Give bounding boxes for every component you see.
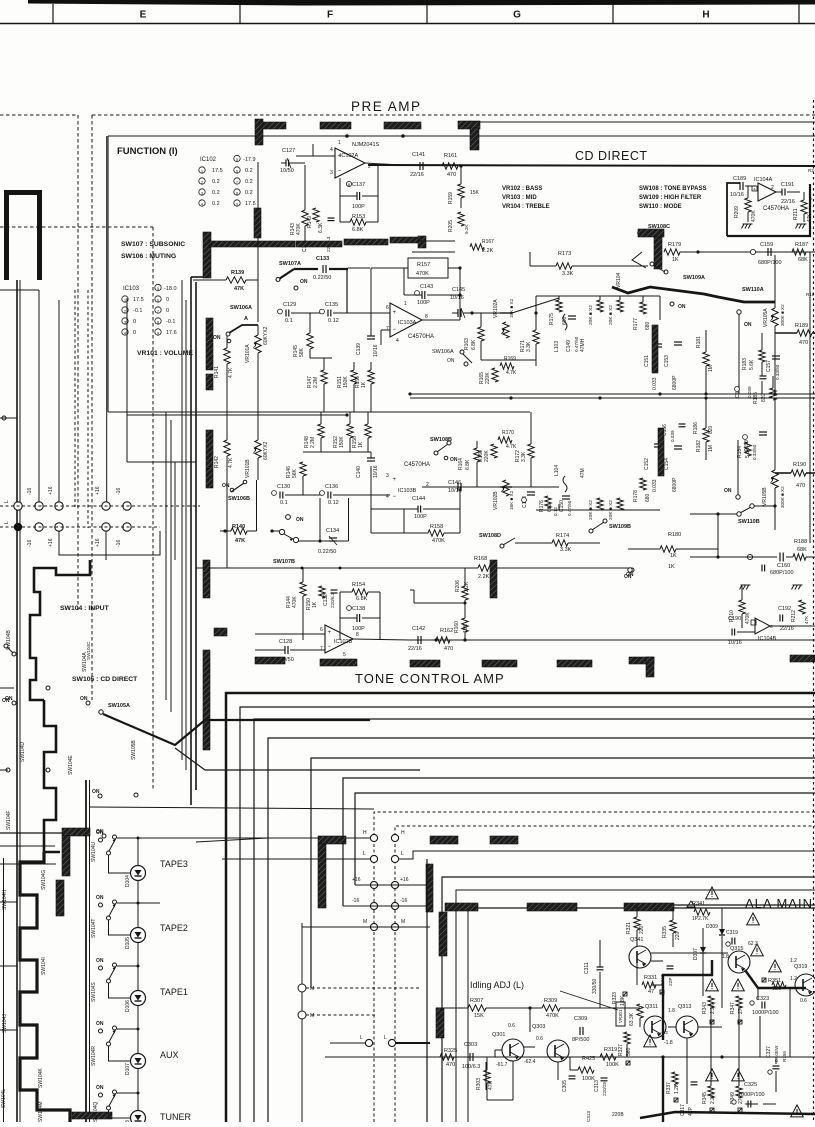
svg-text:47: 47 xyxy=(648,989,654,995)
wire: x530 to idling xyxy=(570,1069,578,1071)
svg-text:VR104: VR104 xyxy=(616,272,622,288)
svg-text:R181: R181 xyxy=(696,336,702,348)
svg-text:-16: -16 xyxy=(27,540,33,547)
svg-text:IC102B: IC102B xyxy=(334,639,353,645)
svg-text:-0.1: -0.1 xyxy=(166,319,175,325)
svg-text:22/16: 22/16 xyxy=(780,626,794,632)
svg-text:0.12: 0.12 xyxy=(328,500,339,506)
svg-text:SW104M: SW104M xyxy=(38,1101,44,1122)
svg-text:C317: C317 xyxy=(680,1104,686,1116)
wire: x106 down xyxy=(105,531,107,560)
svg-text:IC103: IC103 xyxy=(123,286,140,292)
svg-text:C145: C145 xyxy=(452,287,465,293)
svg-text:C142: C142 xyxy=(412,626,425,632)
shield bar y658-5 xyxy=(557,660,592,667)
node matrix row1 xyxy=(14,502,22,510)
svg-text:IC104A: IC104A xyxy=(754,177,773,183)
svg-text:470K: 470K xyxy=(432,538,445,544)
svg-text:C139: C139 xyxy=(356,343,362,355)
thick meander SW104 lower xyxy=(44,700,60,852)
svg-text:C141: C141 xyxy=(412,152,425,158)
svg-text:470: 470 xyxy=(444,646,453,652)
svg-text:0.2: 0.2 xyxy=(212,201,220,207)
svg-text:150K: 150K xyxy=(339,436,345,448)
label ON vr105a xyxy=(737,310,741,314)
svg-text:R141: R141 xyxy=(214,366,220,378)
shield bar x208 c xyxy=(206,430,213,488)
svg-text:C309: C309 xyxy=(574,1016,587,1022)
svg-text:R173: R173 xyxy=(558,251,571,257)
nested box line 6 xyxy=(343,778,815,906)
svg-text:0.33/50: 0.33/50 xyxy=(775,364,780,380)
nested box line 1 xyxy=(226,693,815,1122)
svg-text:C160: C160 xyxy=(777,563,790,569)
nested box line 2 xyxy=(240,707,815,1122)
svg-text:H: H xyxy=(363,830,367,836)
svg-text:1.8: 1.8 xyxy=(722,954,729,960)
svg-text:R190: R190 xyxy=(793,462,806,468)
wire: tone left y864 xyxy=(0,863,56,865)
node circles H row xyxy=(370,834,377,841)
svg-text:2.2K: 2.2K xyxy=(710,1093,716,1104)
wire: x775 column xyxy=(774,255,776,300)
svg-text:L: L xyxy=(360,1035,363,1041)
switch TAPE2 xyxy=(113,900,117,904)
wire: C133 down x348 xyxy=(346,269,348,313)
svg-text:47M: 47M xyxy=(580,468,586,478)
junction dots y136 xyxy=(345,134,349,138)
wire: ch2 filter row xyxy=(512,486,559,488)
warning triangle wt10 xyxy=(791,1105,804,1117)
svg-text:0.033: 0.033 xyxy=(652,479,658,492)
svg-text:SW109A: SW109A xyxy=(683,275,705,281)
wire: bottom q301 links xyxy=(512,1061,514,1100)
svg-text:680: 680 xyxy=(645,493,651,502)
svg-text:-62.4: -62.4 xyxy=(524,1059,536,1065)
shield bar top-3 xyxy=(320,122,351,129)
svg-text:ON: ON xyxy=(296,517,304,523)
svg-text:VR102 : BASS: VR102 : BASS xyxy=(502,186,542,192)
shield bar mid tone2 xyxy=(430,836,458,844)
svg-text:C159: C159 xyxy=(760,242,773,248)
diode D107 xyxy=(131,1054,146,1069)
svg-text:C149: C149 xyxy=(566,340,572,352)
node circles L row xyxy=(370,855,377,862)
svg-text:-1.8: -1.8 xyxy=(664,1040,673,1046)
svg-text:L103: L103 xyxy=(554,341,560,352)
svg-text:6.8K: 6.8K xyxy=(356,596,368,602)
thick box IC104A block xyxy=(727,183,740,236)
wire: R180 jog xyxy=(676,549,718,557)
wire: diode column D108 xyxy=(137,1093,139,1111)
wire: L row step right xyxy=(399,851,815,859)
thick bracket top-left xyxy=(4,190,42,280)
svg-text:820: 820 xyxy=(708,425,714,434)
svg-text:Q319: Q319 xyxy=(794,964,807,970)
svg-text:R345: R345 xyxy=(702,1092,708,1104)
wire: TAPE3 row xyxy=(117,837,138,839)
svg-text:6800P: 6800P xyxy=(672,375,678,390)
svg-text:0.12: 0.12 xyxy=(553,507,558,516)
wire: ch2 feedback xyxy=(371,508,418,510)
wire: TAPE2 row right xyxy=(138,902,160,904)
svg-text:16K ■ X2: 16K ■ X2 xyxy=(509,298,514,318)
svg-text:C152: C152 xyxy=(644,458,650,470)
node M1 xyxy=(298,984,306,992)
shield bar left tone xyxy=(62,828,90,836)
svg-text:0: 0 xyxy=(166,297,169,303)
svg-text:R331: R331 xyxy=(644,975,657,981)
shield bar y658-7 xyxy=(790,655,815,662)
svg-text:C138: C138 xyxy=(352,606,365,612)
svg-text:100P: 100P xyxy=(414,514,427,520)
svg-text:R182: R182 xyxy=(696,440,702,452)
wire: IC103A out xyxy=(422,319,460,321)
svg-text:1K: 1K xyxy=(670,553,677,559)
nested box line 7 xyxy=(355,793,815,885)
warning triangle wt3 xyxy=(751,944,764,956)
svg-text:22/16: 22/16 xyxy=(410,172,424,178)
svg-text:M: M xyxy=(310,986,314,992)
svg-text:C189: C189 xyxy=(733,176,746,182)
svg-text:ON: ON xyxy=(624,574,632,580)
diode D108 xyxy=(131,1111,146,1126)
svg-text:A: A xyxy=(244,316,248,322)
svg-text:2.2M: 2.2M xyxy=(313,377,319,388)
svg-text:ON: ON xyxy=(96,958,104,964)
svg-text:5: 5 xyxy=(343,652,346,658)
svg-text:470K: 470K xyxy=(296,223,302,235)
svg-text:R179: R179 xyxy=(668,242,681,248)
svg-text:M: M xyxy=(401,919,405,925)
svg-text:ON: ON xyxy=(744,322,752,328)
wire: TAPE3 switch drop xyxy=(109,855,131,873)
svg-text:56K: 56K xyxy=(299,347,305,357)
wire: y415 link xyxy=(127,414,347,416)
svg-text:CD DIRECT: CD DIRECT xyxy=(575,149,648,163)
thick meander SW104 bottom xyxy=(20,852,70,1122)
svg-text:R169: R169 xyxy=(504,356,516,362)
svg-text:60KYX2: 60KYX2 xyxy=(263,326,269,345)
svg-text:47K: 47K xyxy=(488,1080,494,1090)
svg-text:TUNER: TUNER xyxy=(160,1112,191,1122)
svg-text:4.7K: 4.7K xyxy=(228,367,234,378)
thick trace q315 emitter xyxy=(745,970,806,988)
svg-text:680P/100: 680P/100 xyxy=(758,260,782,266)
svg-text:TAPE1: TAPE1 xyxy=(160,987,188,997)
svg-text:C154: C154 xyxy=(664,458,670,470)
svg-text:R211: R211 xyxy=(793,208,799,220)
nested dashed line 9 xyxy=(395,826,815,1122)
svg-text:1M: 1M xyxy=(708,365,714,372)
svg-text:C313: C313 xyxy=(586,1111,591,1122)
svg-text:0.2: 0.2 xyxy=(245,179,253,185)
border: header tick E|F xyxy=(52,4,54,24)
svg-text:R206: R206 xyxy=(455,580,461,592)
wire: q341 to q315 xyxy=(651,952,728,954)
svg-text:VR101 : VOLUME: VR101 : VOLUME xyxy=(137,350,193,357)
svg-text:3.3K: 3.3K xyxy=(526,341,532,352)
svg-text:FUNCTION (I): FUNCTION (I) xyxy=(117,146,178,157)
svg-text:VR102A: VR102A xyxy=(493,299,499,318)
svg-text:R303: R303 xyxy=(476,1078,482,1090)
svg-text:C4570HA: C4570HA xyxy=(408,334,434,340)
wire: L bottom thick right xyxy=(396,1042,430,1044)
wire: pair horizontal stub xyxy=(191,276,204,278)
dashed border: left block top xyxy=(0,114,78,116)
svg-text:SW104F: SW104F xyxy=(6,811,12,830)
svg-text:SW106 : MUTING: SW106 : MUTING xyxy=(121,253,176,260)
svg-text:2.2K: 2.2K xyxy=(482,248,494,254)
svg-text:L: L xyxy=(4,521,10,524)
svg-text:-17.9: -17.9 xyxy=(243,157,256,163)
svg-text:SW104R: SW104R xyxy=(91,1046,97,1066)
shield bar x493 xyxy=(490,560,497,598)
wire: left edge stubs lower xyxy=(0,901,17,903)
svg-text:0: 0 xyxy=(133,330,136,336)
svg-text:3: 3 xyxy=(386,473,389,479)
svg-text:SW104U: SW104U xyxy=(91,842,97,862)
svg-text:47K: 47K xyxy=(235,538,245,544)
shield bar ala-5 vertical xyxy=(436,1008,444,1038)
svg-text:15K: 15K xyxy=(470,190,480,196)
svg-text:10/16: 10/16 xyxy=(730,192,744,198)
svg-text:68K: 68K xyxy=(798,257,808,263)
warning triangle wt1 xyxy=(706,887,719,899)
svg-text:16K ■ X2: 16K ■ X2 xyxy=(509,490,514,510)
wire: y268 row mid xyxy=(348,267,370,269)
svg-text:R153: R153 xyxy=(352,214,365,220)
wire: y462 stub xyxy=(175,461,196,463)
svg-text:C191: C191 xyxy=(781,182,794,188)
svg-text:SW109B: SW109B xyxy=(609,524,631,530)
svg-text:0.47/50: 0.47/50 xyxy=(567,500,572,516)
dashed border: left block right side xyxy=(77,115,79,610)
svg-text:ON: ON xyxy=(96,830,104,836)
svg-text:10/16: 10/16 xyxy=(450,295,464,301)
svg-text:680P/100: 680P/100 xyxy=(770,570,794,576)
switch SW106A xyxy=(229,325,258,333)
svg-text:470K: 470K xyxy=(751,210,757,222)
svg-text:R161: R161 xyxy=(444,153,457,159)
svg-text:VR301: VR301 xyxy=(618,1009,623,1023)
svg-text:47K: 47K xyxy=(234,286,244,292)
svg-text:C143: C143 xyxy=(420,284,433,290)
svg-text:H: H xyxy=(401,830,405,836)
wire: TAPE1 row xyxy=(117,965,138,967)
border: header band bottom line xyxy=(0,23,815,25)
wire: bus y244 to C129 column xyxy=(296,162,305,164)
wire: mid verticals x166-x196 xyxy=(165,412,167,700)
potentiometer VR301 xyxy=(616,1002,625,1026)
wire: ala double line y905 xyxy=(640,904,815,906)
svg-text:300K ■ X2: 300K ■ X2 xyxy=(780,486,785,508)
svg-text:1: 1 xyxy=(338,140,341,146)
svg-text:C305: C305 xyxy=(562,1080,568,1092)
svg-text:470K: 470K xyxy=(745,612,751,624)
svg-text:3.3K: 3.3K xyxy=(521,451,527,462)
wire: IC102B out xyxy=(353,639,410,640)
node M2 xyxy=(298,1011,306,1019)
svg-text:ON: ON xyxy=(222,483,230,489)
svg-text:470: 470 xyxy=(799,340,808,346)
svg-text:R18: R18 xyxy=(806,292,815,297)
shield blob bottom edge xyxy=(72,1112,112,1119)
wire: M column xyxy=(301,923,303,1122)
svg-text:SW104 : INPUT: SW104 : INPUT xyxy=(60,605,110,612)
svg-text:R205: R205 xyxy=(448,220,454,232)
svg-text:7: 7 xyxy=(386,326,389,332)
svg-text:SW104J: SW104J xyxy=(2,1014,8,1033)
svg-text:R180: R180 xyxy=(668,532,681,538)
svg-text:R142: R142 xyxy=(214,456,220,468)
svg-text:NJM2041S: NJM2041S xyxy=(352,142,380,148)
wire: left bus x39 xyxy=(38,290,40,507)
svg-text:R160: R160 xyxy=(454,621,460,633)
wire: tone left y833 xyxy=(0,832,62,834)
svg-text:0.039: 0.039 xyxy=(670,430,675,442)
svg-text:C325: C325 xyxy=(744,1082,757,1088)
svg-text:R347: R347 xyxy=(730,1002,736,1014)
ground (R211) xyxy=(796,224,799,229)
svg-text:R175: R175 xyxy=(549,313,555,325)
svg-text:4: 4 xyxy=(330,147,333,153)
svg-text:SW104S: SW104S xyxy=(91,982,97,1002)
svg-text:4.7K: 4.7K xyxy=(506,370,517,376)
wire: q301 links xyxy=(495,1049,502,1051)
svg-text:PRE AMP: PRE AMP xyxy=(351,99,422,114)
svg-text:20K ■ X2: 20K ■ X2 xyxy=(588,305,594,325)
svg-text:ON: ON xyxy=(2,698,10,704)
thick trace SW108C down xyxy=(632,252,646,268)
svg-text:220: 220 xyxy=(639,925,645,934)
svg-text:47K: 47K xyxy=(804,615,809,624)
wire: y640 long xyxy=(410,639,815,641)
svg-text:C327: C327 xyxy=(766,1046,772,1058)
svg-text:0: 0 xyxy=(133,319,136,325)
svg-text:ON: ON xyxy=(300,279,308,285)
wire: sw107b row xyxy=(298,540,329,542)
svg-text:470K: 470K xyxy=(416,271,429,277)
svg-text:IC104B: IC104B xyxy=(758,636,777,642)
svg-text:R355: R355 xyxy=(782,1051,787,1062)
svg-text:17.5: 17.5 xyxy=(212,168,223,174)
svg-text:R188: R188 xyxy=(794,539,807,545)
nested dashed line 8 xyxy=(374,812,815,1122)
op-amp U IC102B xyxy=(325,625,353,653)
shield bar y658-6 xyxy=(629,657,654,664)
wire: idling pointer xyxy=(560,991,618,1010)
wire: ch1 mid row xyxy=(481,359,536,361)
svg-text:100K: 100K xyxy=(606,1062,619,1068)
svg-text:C192: C192 xyxy=(778,606,791,612)
wire: filter top row xyxy=(512,298,559,313)
wire: divider y394 xyxy=(410,393,815,395)
svg-text:1K: 1K xyxy=(312,601,318,608)
svg-text:D106: D106 xyxy=(125,1000,131,1012)
op-amp U IC104B xyxy=(755,618,770,634)
wire: y568 long xyxy=(196,567,478,569)
svg-text:-16: -16 xyxy=(400,898,407,904)
resistor R351 xyxy=(762,978,766,982)
svg-text:220K: 220K xyxy=(485,372,491,384)
svg-text:-16: -16 xyxy=(27,488,33,495)
svg-text:SW110B: SW110B xyxy=(738,519,760,525)
svg-text:470K: 470K xyxy=(546,1013,559,1019)
svg-text:L: L xyxy=(363,851,366,857)
shield bar x205 low xyxy=(203,560,210,598)
node circles -16 row xyxy=(370,902,377,909)
shield bar top-4 xyxy=(384,122,421,129)
wire: row2 link down xyxy=(59,531,160,555)
wire: ch1 right verticals xyxy=(659,296,661,320)
wire: q313 emitter xyxy=(686,1038,688,1070)
dashed wire row1 xyxy=(0,505,200,507)
nested box line 4 xyxy=(268,738,815,1122)
svg-text:ON: ON xyxy=(96,1021,104,1027)
wire: ala box left v2 xyxy=(442,877,815,1122)
svg-text:0.22/50: 0.22/50 xyxy=(318,549,336,555)
thick trace x663 down xyxy=(662,1057,664,1122)
svg-text:+16: +16 xyxy=(48,486,54,495)
svg-text:17.5: 17.5 xyxy=(133,297,144,303)
svg-text:1M: 1M xyxy=(708,445,714,452)
svg-text:C134: C134 xyxy=(326,528,339,534)
svg-text:C153: C153 xyxy=(664,355,670,367)
svg-text:4.7K: 4.7K xyxy=(506,444,517,450)
svg-text:D309: D309 xyxy=(706,924,718,930)
svg-text:R186: R186 xyxy=(693,422,699,434)
diode D105 xyxy=(131,928,146,943)
op-amp U IC102A xyxy=(335,148,365,178)
svg-text:1K: 1K xyxy=(672,257,679,263)
wire: TAPE3 row to H xyxy=(138,837,268,839)
shield bar SW108C xyxy=(638,229,664,237)
wire: TAPE2 row xyxy=(117,902,138,904)
diode D106 xyxy=(131,991,146,1006)
svg-text:C127: C127 xyxy=(282,148,295,154)
warning triangle wt2 xyxy=(747,913,760,925)
svg-text:220: 220 xyxy=(675,931,681,940)
svg-text:+16: +16 xyxy=(48,538,54,547)
svg-text:VR101B: VR101B xyxy=(245,459,251,478)
svg-text:SW104H: SW104H xyxy=(2,890,8,910)
border: top sheet line xyxy=(28,0,815,6)
svg-text:3.3K: 3.3K xyxy=(560,547,572,553)
svg-text:0.2: 0.2 xyxy=(245,190,253,196)
warning triangle wt6 xyxy=(706,979,719,991)
svg-text:0.039: 0.039 xyxy=(747,386,752,398)
wire: matrix row links xyxy=(268,837,371,839)
svg-text:150K: 150K xyxy=(343,376,349,388)
wire: x775 column ch2 xyxy=(774,398,776,470)
svg-text:D107: D107 xyxy=(125,1063,131,1075)
switch TAPE3 xyxy=(113,835,117,839)
svg-text:1P2.7K: 1P2.7K xyxy=(692,916,709,922)
wire: R143 drop xyxy=(304,165,306,210)
svg-text:F: F xyxy=(327,10,333,21)
svg-text:R158: R158 xyxy=(430,524,443,530)
svg-text:17.5: 17.5 xyxy=(245,201,256,207)
svg-text:ON: ON xyxy=(213,335,221,341)
wire: left edge stubs xyxy=(0,687,14,689)
shield bar mid-left tone xyxy=(318,836,346,844)
svg-text:R309: R309 xyxy=(544,998,557,1004)
wire: IC104B links xyxy=(737,631,755,633)
svg-text:ON: ON xyxy=(678,304,686,310)
svg-text:SW105A: SW105A xyxy=(108,703,130,709)
wire: L wire bottom xyxy=(330,1042,369,1044)
